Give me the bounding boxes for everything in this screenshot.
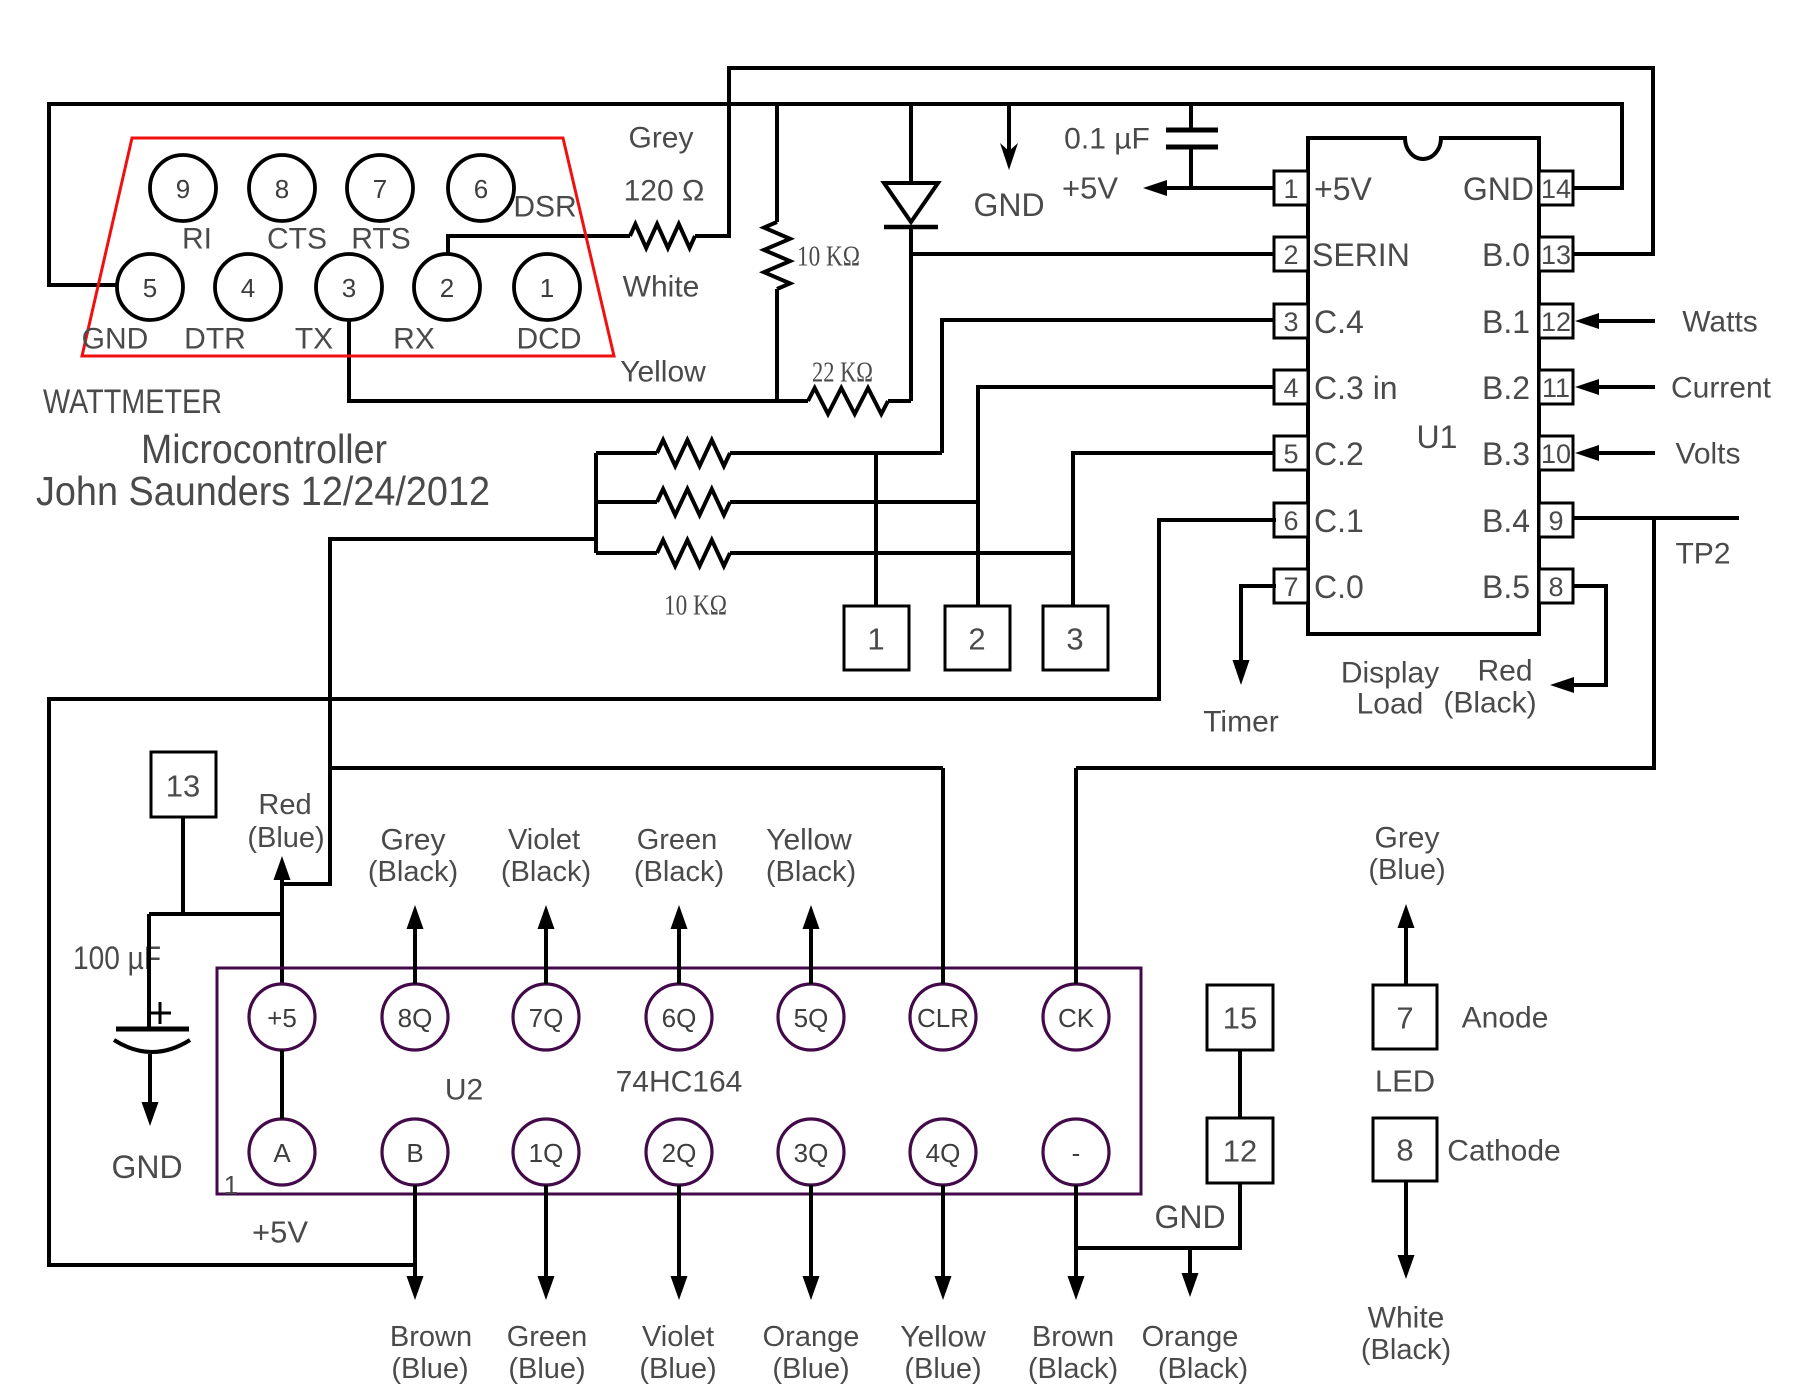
- svg-text:7: 7: [1283, 572, 1298, 602]
- U1 pin label C.4: [1314, 304, 1364, 340]
- ground symbol arrow top: [1000, 104, 1018, 170]
- svg-text:2Q: 2Q: [662, 1138, 697, 1168]
- svg-text:4: 4: [1283, 373, 1298, 403]
- svg-text:(Black): (Black): [368, 856, 458, 888]
- IC U2 body 74HC164: [217, 968, 1141, 1194]
- svg-text:B.2: B.2: [1482, 370, 1530, 406]
- U2 pad B: [382, 1119, 448, 1185]
- svg-text:GND: GND: [973, 187, 1044, 223]
- wire GND net: DB9 pin5 to U1 pin14: [49, 104, 1622, 285]
- U1 pin 6 box: [1274, 503, 1308, 537]
- wire resistor bus vertical: [594, 453, 598, 553]
- U2 pad 2Q: [646, 1119, 712, 1185]
- svg-text:B.4: B.4: [1482, 503, 1530, 539]
- U2 pad minus: [1043, 1119, 1109, 1185]
- arrow 4Q Yellow(Blue): [900, 1185, 986, 1385]
- svg-text:Microcontroller: Microcontroller: [141, 426, 387, 472]
- wire U1 pin5 C.2 to row3 and box 3: [1073, 453, 1276, 606]
- U1 pin label B.1: [1482, 304, 1530, 340]
- U1 pin label B.5: [1482, 569, 1530, 605]
- U1 pin label +5V: [1314, 171, 1372, 207]
- svg-text:Red: Red: [1477, 655, 1532, 688]
- node box 3: [1043, 606, 1108, 670]
- capacitor C2 100uF polarized: [114, 1002, 190, 1052]
- U1 pin label B.2: [1482, 370, 1530, 406]
- resistor R2 22K: [808, 388, 888, 414]
- svg-text:(Blue): (Blue): [508, 1353, 585, 1385]
- label C1 value 0.1 uF: [1064, 123, 1150, 156]
- label Red (Blue): [247, 789, 324, 854]
- svg-text:0.1 µF: 0.1 µF: [1064, 123, 1150, 156]
- arrow 5Q Yellow(Black): [766, 824, 856, 985]
- arrow 8Q Grey(Black): [368, 824, 458, 985]
- U2 pad A: [249, 1119, 315, 1185]
- svg-text:8: 8: [275, 174, 289, 204]
- svg-text:Violet: Violet: [508, 824, 580, 856]
- label GND db9: [82, 323, 149, 356]
- svg-text:John Saunders 12/24/2012: John Saunders 12/24/2012: [36, 468, 490, 514]
- label WATTMETER: [43, 383, 222, 421]
- svg-text:Yellow: Yellow: [766, 824, 852, 857]
- J1 pin 7: [347, 155, 413, 221]
- svg-text:10 KΩ: 10 KΩ: [797, 242, 860, 273]
- U1 pin 1 box: [1274, 171, 1308, 205]
- svg-text:DCD: DCD: [517, 323, 582, 356]
- wire box15 to box12: [1238, 1050, 1242, 1118]
- arrow Volts into pin 10: [1575, 438, 1741, 471]
- title Microcontroller: [141, 426, 387, 472]
- U1 pin 13 box: [1539, 237, 1573, 271]
- svg-text:Red: Red: [258, 789, 311, 821]
- wire U1 pin4 C.3 to resistor row2 and box 2: [978, 387, 1276, 606]
- label DSR: [513, 191, 576, 224]
- U1 pin 3 box: [1274, 304, 1308, 338]
- svg-text:Grey: Grey: [380, 824, 445, 857]
- U1 pin label C.3 in: [1314, 370, 1398, 406]
- wire B.0 net: 120 ohm to U1 pin13 top route: [695, 68, 1653, 254]
- svg-text:White: White: [623, 271, 700, 304]
- J1 pin 8: [249, 155, 315, 221]
- U1 pin label B.4: [1482, 503, 1530, 539]
- svg-text:1: 1: [867, 622, 884, 657]
- U1 pin 2 box: [1274, 237, 1308, 271]
- svg-text:3: 3: [1283, 307, 1298, 337]
- wire U2 +5 to A internal: [280, 1050, 284, 1119]
- arrow 3Q Orange(Blue): [763, 1185, 860, 1385]
- node box 15: [1207, 985, 1273, 1050]
- label R1 value 120 ohm: [624, 175, 705, 208]
- svg-text:12: 12: [1223, 1134, 1257, 1169]
- svg-text:2: 2: [1283, 240, 1298, 270]
- svg-text:Yellow: Yellow: [900, 1321, 986, 1354]
- svg-text:Display: Display: [1341, 657, 1439, 690]
- label LED: [1375, 1064, 1435, 1099]
- ground symbol arrow below C2: [142, 1054, 159, 1126]
- svg-text:11: 11: [1542, 373, 1570, 403]
- svg-text:2: 2: [440, 273, 454, 303]
- label +5V top: [1062, 171, 1118, 206]
- arrow LED cathode White(Black): [1361, 1181, 1451, 1366]
- svg-text:U2: U2: [445, 1074, 483, 1107]
- svg-text:Volts: Volts: [1675, 438, 1740, 471]
- svg-text:14: 14: [1541, 174, 1571, 204]
- label GND bottom: [1154, 1199, 1225, 1235]
- U1 pin label B.0: [1482, 237, 1530, 273]
- svg-text:C.4: C.4: [1314, 304, 1364, 340]
- svg-text:Grey: Grey: [628, 122, 693, 155]
- U2 pad 1Q: [513, 1119, 579, 1185]
- svg-text:+5V: +5V: [1314, 171, 1372, 207]
- svg-text:9: 9: [176, 174, 190, 204]
- svg-text:9: 9: [1548, 506, 1563, 536]
- svg-text:B.0: B.0: [1482, 237, 1530, 273]
- svg-text:(Blue): (Blue): [639, 1353, 716, 1385]
- label U2 pin1 marker: [224, 1170, 238, 1200]
- U2 pad 5Q: [778, 984, 844, 1050]
- svg-text:120 Ω: 120 Ω: [624, 175, 705, 208]
- svg-text:1: 1: [540, 273, 554, 303]
- label U2: [445, 1074, 483, 1107]
- svg-text:(Blue): (Blue): [904, 1353, 981, 1385]
- label RX: [393, 323, 435, 356]
- svg-text:10 KΩ: 10 KΩ: [664, 591, 727, 622]
- wire cap node horizontal: [149, 912, 282, 916]
- node box 7 anode: [1373, 985, 1437, 1049]
- wire down to capacitor C2: [147, 914, 151, 1029]
- svg-text:RI: RI: [182, 223, 212, 256]
- arrow Current into pin 11: [1575, 372, 1772, 405]
- svg-text:White: White: [1368, 1302, 1445, 1335]
- svg-text:Green: Green: [637, 824, 718, 856]
- svg-text:(Blue): (Blue): [1368, 854, 1445, 886]
- svg-text:TX: TX: [295, 323, 333, 356]
- resistor R3 10K pullup vertical: [764, 104, 790, 401]
- wire row1 to box 1: [874, 453, 878, 606]
- svg-text:Orange: Orange: [763, 1321, 860, 1353]
- svg-text:Brown: Brown: [390, 1321, 472, 1353]
- svg-text:Anode: Anode: [1462, 1002, 1549, 1035]
- U2 pad +5: [249, 984, 315, 1050]
- svg-text:+5V: +5V: [252, 1215, 308, 1250]
- wire 22K to diode node: [888, 399, 911, 403]
- svg-text:GND: GND: [1154, 1199, 1225, 1235]
- label wire Yellow: [620, 356, 706, 389]
- svg-text:6: 6: [1283, 506, 1298, 536]
- U1 pin label C.1: [1314, 503, 1364, 539]
- svg-text:(Black): (Black): [766, 856, 856, 888]
- wire +5V to U1 pin1 with arrow: [1143, 180, 1276, 196]
- U1 pin 4 box: [1274, 370, 1308, 404]
- svg-text:+5V: +5V: [1062, 171, 1118, 206]
- U2 pad 6Q: [646, 984, 712, 1050]
- U1 pin label B.3: [1482, 436, 1530, 472]
- label TP2: [1675, 538, 1730, 571]
- wire minus to box 12 GND: [1076, 1183, 1240, 1248]
- svg-text:DSR: DSR: [513, 191, 576, 224]
- svg-text:(Blue): (Blue): [391, 1353, 468, 1385]
- svg-text:Green: Green: [507, 1321, 588, 1353]
- IC U1 body: [1308, 138, 1539, 634]
- U2 pad CK: [1043, 984, 1109, 1050]
- arrow minus Brown(Black): [1028, 1185, 1118, 1385]
- svg-text:Brown: Brown: [1032, 1321, 1114, 1353]
- capacitor C1 0.1uF: [1166, 104, 1218, 188]
- svg-text:7: 7: [1396, 1001, 1413, 1036]
- svg-text:(Black): (Black): [1158, 1353, 1248, 1385]
- label TX: [295, 323, 333, 356]
- node box 12: [1207, 1118, 1273, 1183]
- svg-text:1Q: 1Q: [529, 1138, 564, 1168]
- wire DB9 pin2 RX to resistor R1: [448, 236, 630, 255]
- U1 pin 7 box: [1274, 569, 1308, 603]
- svg-text:6Q: 6Q: [662, 1003, 697, 1033]
- svg-text:Violet: Violet: [642, 1321, 714, 1353]
- svg-text:Grey: Grey: [1374, 822, 1439, 855]
- svg-text:Current: Current: [1671, 372, 1772, 405]
- svg-text:C.0: C.0: [1314, 569, 1364, 605]
- U2 pad CLR: [910, 984, 976, 1050]
- svg-text:DTR: DTR: [184, 323, 246, 356]
- label DTR: [184, 323, 246, 356]
- label Display Load: [1341, 657, 1439, 721]
- arrow 7Q Violet(Black): [501, 824, 591, 984]
- svg-text:1: 1: [224, 1170, 238, 1200]
- arrow 2Q Violet(Blue): [639, 1185, 716, 1385]
- U1 pin 11 box: [1539, 370, 1573, 404]
- svg-text:GND: GND: [111, 1149, 182, 1185]
- resistor R1 120 ohm: [630, 224, 695, 248]
- svg-text:7Q: 7Q: [529, 1003, 564, 1033]
- svg-text:5Q: 5Q: [794, 1003, 829, 1033]
- title John Saunders 12/24/2012: [36, 468, 490, 514]
- svg-text:10: 10: [1541, 439, 1571, 469]
- node box 13: [151, 752, 216, 817]
- svg-text:4Q: 4Q: [926, 1138, 961, 1168]
- svg-text:Timer: Timer: [1203, 706, 1279, 739]
- svg-text:8Q: 8Q: [398, 1003, 433, 1033]
- U2 pad 7Q: [513, 984, 579, 1050]
- svg-text:5: 5: [143, 273, 157, 303]
- svg-text:3Q: 3Q: [794, 1138, 829, 1168]
- svg-text:74HC164: 74HC164: [616, 1066, 743, 1099]
- label U1: [1417, 419, 1458, 455]
- label RI: [182, 223, 212, 256]
- svg-text:TP2: TP2: [1675, 538, 1730, 571]
- U2 pad 3Q: [778, 1119, 844, 1185]
- svg-text:C.1: C.1: [1314, 503, 1364, 539]
- svg-text:C.2: C.2: [1314, 436, 1364, 472]
- svg-text:B.1: B.1: [1482, 304, 1530, 340]
- svg-text:6: 6: [474, 174, 488, 204]
- label 10 Kohm resistor array: [664, 591, 727, 622]
- svg-text:12: 12: [1541, 307, 1571, 337]
- U1 pin 9 box: [1539, 503, 1573, 537]
- label wire White: [623, 271, 700, 304]
- svg-text:8: 8: [1548, 572, 1563, 602]
- U1 pin 5 box: [1274, 436, 1308, 470]
- svg-text:(Black): (Black): [1361, 1334, 1451, 1366]
- wire TP2 down to CK: [1076, 518, 1654, 768]
- svg-text:CTS: CTS: [267, 223, 327, 256]
- svg-text:Orange: Orange: [1142, 1321, 1239, 1353]
- svg-text:WATTMETER: WATTMETER: [43, 383, 222, 421]
- resistor R6 10K row3: [596, 540, 1073, 566]
- U1 pin label C.0: [1314, 569, 1364, 605]
- node box 8 cathode: [1373, 1118, 1437, 1181]
- U1 pin label C.2: [1314, 436, 1364, 472]
- svg-text:(Black): (Black): [1028, 1353, 1118, 1385]
- svg-text:13: 13: [166, 769, 200, 804]
- svg-text:15: 15: [1223, 1001, 1257, 1036]
- svg-text:U1: U1: [1417, 419, 1458, 455]
- label wire Grey: [628, 122, 693, 155]
- svg-text:2: 2: [968, 622, 985, 657]
- wire U1 pin6 C.1 long route to +5V bottom: [49, 520, 1276, 1265]
- arrow 1Q Green(Blue): [507, 1185, 588, 1385]
- wire bus to CLR net vertical: [282, 539, 596, 884]
- node box 1: [844, 606, 909, 670]
- J1 pin 9: [150, 155, 216, 221]
- arrow B Brown(Blue): [390, 1185, 472, 1385]
- svg-text:-: -: [1072, 1138, 1081, 1168]
- arrow 6Q Green(Black): [634, 824, 724, 984]
- label RTS: [351, 223, 410, 256]
- label GND top: [973, 187, 1044, 223]
- wire CLR branch horizontal: [330, 766, 943, 770]
- label Red (Black): [1443, 655, 1536, 720]
- svg-text:3: 3: [1066, 622, 1083, 657]
- J1 pin 6: [448, 155, 514, 221]
- svg-text:B.5: B.5: [1482, 569, 1530, 605]
- node box 2: [945, 606, 1010, 670]
- svg-text:SERIN: SERIN: [1312, 237, 1410, 273]
- label 100 uF: [73, 940, 161, 976]
- svg-text:22 KΩ: 22 KΩ: [812, 358, 873, 389]
- svg-text:Load: Load: [1357, 688, 1424, 721]
- svg-text:13: 13: [1541, 240, 1571, 270]
- diode D1: [884, 104, 938, 401]
- svg-text:B: B: [406, 1138, 423, 1168]
- label R2 value 22 Kohm: [812, 358, 873, 389]
- svg-text:Yellow: Yellow: [620, 356, 706, 389]
- svg-text:3: 3: [342, 273, 356, 303]
- U2 pad 4Q: [910, 1119, 976, 1185]
- U1 pin 14 box: [1539, 171, 1573, 205]
- svg-text:(Black): (Black): [1443, 687, 1536, 720]
- wire SERIN to U1 pin2: [911, 252, 1276, 256]
- svg-text:CLR: CLR: [917, 1003, 969, 1033]
- svg-text:(Blue): (Blue): [247, 822, 324, 854]
- U1 pin label SERIN: [1312, 237, 1410, 273]
- svg-text:8: 8: [1396, 1133, 1413, 1168]
- svg-text:+5: +5: [267, 1003, 297, 1033]
- J1 pin 1: [514, 254, 580, 320]
- svg-text:7: 7: [373, 174, 387, 204]
- resistor R4 10K row1: [596, 440, 942, 466]
- svg-text:Watts: Watts: [1682, 306, 1758, 339]
- wire Red(Blue) arrow into U2 +5: [274, 856, 291, 984]
- arrow LED anode Grey(Blue): [1368, 822, 1445, 986]
- label CTS: [267, 223, 327, 256]
- svg-text:B.3: B.3: [1482, 436, 1530, 472]
- wire U1 pin3 C.4 to resistor row1: [942, 320, 1276, 453]
- label +5V bottom: [252, 1215, 308, 1250]
- wire U1 pin9 B.4 TP2: [1573, 516, 1739, 520]
- svg-text:Cathode: Cathode: [1447, 1135, 1560, 1168]
- svg-text:5: 5: [1283, 439, 1298, 469]
- U2 pad 8Q: [382, 984, 448, 1050]
- svg-text:A: A: [273, 1138, 291, 1168]
- J1 pin 3: [316, 254, 382, 320]
- svg-text:(Black): (Black): [634, 856, 724, 888]
- J1 pin 5: [117, 254, 183, 320]
- label Anode: [1462, 1002, 1549, 1035]
- label DCD: [517, 323, 582, 356]
- svg-text:CK: CK: [1058, 1003, 1095, 1033]
- wire box13 to cap node: [181, 817, 185, 914]
- U1 pin 10 box: [1539, 436, 1573, 470]
- J1 pin 4: [215, 254, 281, 320]
- wire U1 pin7 C.0 Timer arrow: [1233, 586, 1277, 685]
- svg-text:4: 4: [241, 273, 255, 303]
- svg-text:LED: LED: [1375, 1064, 1435, 1099]
- wire CK up: [1074, 768, 1078, 984]
- label 74HC164: [616, 1066, 743, 1099]
- svg-text:RX: RX: [393, 323, 435, 356]
- svg-text:GND: GND: [82, 323, 149, 356]
- U1 pin 8 box: [1539, 569, 1573, 603]
- label GND cap: [111, 1149, 182, 1185]
- svg-text:1: 1: [1283, 174, 1298, 204]
- svg-text:(Black): (Black): [501, 856, 591, 888]
- arrow Watts into pin 12: [1575, 306, 1758, 339]
- resistor R5 10K row2: [596, 489, 978, 515]
- wire DB9 pin3 TX to 22K: [349, 320, 808, 401]
- svg-text:GND: GND: [1463, 171, 1534, 207]
- label Cathode: [1447, 1135, 1560, 1168]
- wire CLR up: [941, 768, 945, 984]
- U1 pin 12 box: [1539, 304, 1573, 338]
- U1 pin label GND: [1463, 171, 1534, 207]
- connector J1 DB9 shell: [82, 138, 614, 356]
- svg-text:RTS: RTS: [351, 223, 410, 256]
- svg-text:C.3 in: C.3 in: [1314, 370, 1398, 406]
- wire U1 pin8 B.5 to Red(Black) arrow: [1550, 586, 1606, 693]
- svg-text:(Blue): (Blue): [772, 1353, 849, 1385]
- J1 pin 2: [414, 254, 480, 320]
- ground symbol arrow bottom Orange(Black): [1142, 1248, 1248, 1385]
- label R3 value 10 Kohm: [797, 242, 860, 273]
- label Timer: [1203, 706, 1279, 739]
